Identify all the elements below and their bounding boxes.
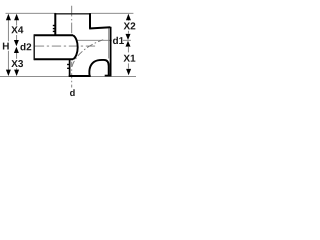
arrow H top: [6, 14, 11, 20]
outlet left edge: [69, 59, 71, 77]
arrow X3 top (bowtie lower): [14, 47, 19, 53]
label d1: [113, 37, 124, 44]
arrow X1 bottom: [126, 69, 131, 75]
weld tick top 1: [53, 25, 56, 26]
top spigot left edge: [54, 13, 56, 35]
shoulder step: [89, 27, 110, 28]
branch socket bottom edge: [34, 58, 73, 60]
weld tick top 3: [53, 31, 56, 32]
arrow H bottom: [6, 70, 11, 76]
label d: [70, 89, 75, 96]
centerline vertical of top spigot: [71, 6, 73, 34]
top spigot right edge: [89, 13, 91, 28]
main right edge: [110, 27, 112, 76]
bottom extension line: [0, 75, 136, 77]
weld tick bottom 1: [67, 64, 70, 65]
arrow X2 top: [126, 14, 131, 20]
branch socket round end: [73, 35, 78, 59]
weld tick bottom 2: [67, 68, 70, 69]
centerline horizontal of branch: [35, 45, 97, 47]
branch socket mouth: [33, 34, 35, 60]
label X2: [124, 22, 136, 29]
top spigot mouth: [54, 13, 90, 15]
label X1: [123, 55, 135, 62]
inner bore sweep right: [89, 60, 108, 76]
arrow d1 upper: [126, 34, 131, 40]
arrow X4 top: [14, 14, 19, 20]
wall foot bottom right: [105, 75, 112, 77]
dimension line X4/X3 (vertical x=16.6): [16, 17, 18, 73]
dimension line H (vertical x=8.4): [7, 17, 9, 73]
label H: [3, 43, 9, 50]
top extension line right: [91, 12, 133, 14]
inner wall gray line (right bore): [108, 28, 110, 58]
label X3: [11, 60, 23, 67]
d1 extension line: [77, 39, 131, 41]
label d2: [20, 43, 31, 50]
branch socket top edge: [34, 34, 73, 36]
right dimension line (vertical x=128.4): [127, 17, 129, 69]
centerline sweep arc: [72, 40, 103, 67]
arrow X4 bottom (bowtie upper): [14, 40, 19, 46]
arrow d1 lower: [126, 41, 131, 47]
weld tick top 2: [53, 28, 56, 29]
centerline vertical lower: [71, 62, 73, 88]
label X4: [11, 26, 23, 33]
outlet mouth: [69, 75, 91, 77]
arrow X3 bottom: [14, 70, 19, 76]
top extension line left: [6, 12, 57, 14]
